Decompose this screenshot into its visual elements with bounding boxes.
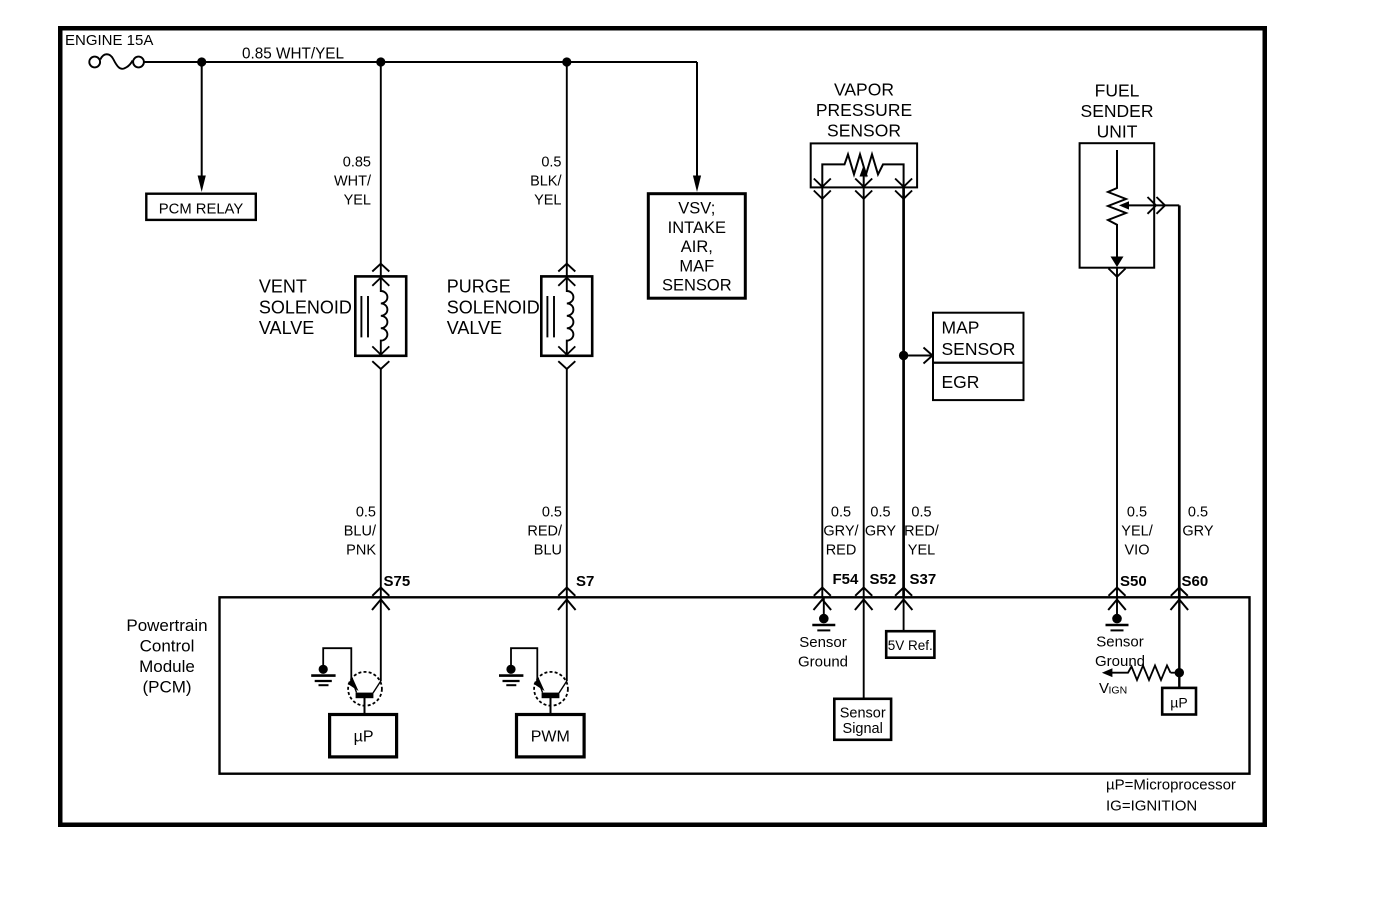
wire label 0.5 BLK/YEL [530,155,562,209]
svg-text:GRY: GRY [1182,524,1213,540]
svg-text:Control: Control [140,637,195,656]
wire: drop to PCM relay [198,62,206,192]
svg-text:F54: F54 [833,571,860,588]
wire label 0.5 RED/BLU [527,505,563,559]
svg-text:YEL/: YEL/ [1121,524,1153,540]
svg-text:SENSOR: SENSOR [942,339,1016,359]
svg-text:SOLENOID: SOLENOID [447,298,540,318]
microprocessor uP box (right) [1162,688,1196,715]
svg-text:VAPOR: VAPOR [834,80,894,100]
svg-text:SOLENOID: SOLENOID [259,298,352,318]
transistor Q2 [534,672,568,715]
connector crossing F54 at PCM edge [814,588,832,611]
wire: purge solenoid feed 0.5 BLK/YEL [566,62,568,276]
splice label S50 [1120,573,1147,590]
svg-text:YEL: YEL [908,543,935,559]
svg-text:0.5: 0.5 [1188,505,1208,521]
svg-text:µP: µP [354,729,374,746]
Sensor Signal box [834,699,891,740]
connector chevron below vent solenoid [372,361,389,369]
net label VIGN [1099,680,1127,697]
svg-text:FUEL: FUEL [1095,81,1140,101]
wire: vapor sensor pin3 to PCM S37 0.5 RED/YEL [902,187,905,597]
sensor ground symbol at F54 [812,597,835,630]
svg-text:µP: µP [1170,695,1187,711]
svg-text:VIO: VIO [1125,543,1150,559]
sensor ground label (right) [1095,634,1145,671]
svg-text:5V Ref.: 5V Ref. [888,638,933,653]
connector crossing S37 at PCM edge [895,588,913,611]
svg-text:PRESSURE: PRESSURE [816,100,912,120]
svg-text:BLU: BLU [534,543,562,559]
wire: drop to VSV intake air MAF sensor [693,62,701,192]
Powertrain Control Module PCM box [220,597,1250,773]
svg-text:Ground: Ground [1095,653,1145,670]
vent solenoid valve L1 box and coil [355,276,406,355]
svg-text:S50: S50 [1120,573,1147,590]
svg-text:INTAKE: INTAKE [668,219,726,237]
svg-text:ENGINE 15A: ENGINE 15A [65,32,153,49]
junction node at VIGN resistor [1175,668,1184,677]
svg-text:PCM RELAY: PCM RELAY [159,201,244,217]
svg-text:BLK/: BLK/ [530,174,562,190]
resistor R3 to VIGN [1102,666,1179,681]
svg-text:SENSOR: SENSOR [662,277,732,295]
wire: fuel sender wiper to PCM S60 0.5 GRY [1178,205,1181,597]
svg-text:Module: Module [139,657,195,676]
wire: top power bus 0.85 WHT/YEL [144,61,697,63]
junction node to MAP sensor tap [899,351,908,360]
fuel sender unit label [1081,81,1154,142]
splice label S60 [1182,573,1209,590]
svg-text:RED/: RED/ [527,524,563,540]
svg-text:MAP: MAP [942,318,980,338]
svg-text:VALVE: VALVE [447,318,502,338]
svg-text:PNK: PNK [346,543,376,559]
svg-text:UNIT: UNIT [1097,122,1138,142]
svg-text:Sensor: Sensor [840,706,886,722]
PWM driver box [517,715,585,757]
vapor pressure sensor label [816,80,912,141]
VSV intake air MAF sensor box [648,194,745,299]
svg-text:0.5: 0.5 [870,505,890,521]
ground at transistor Q1 [311,648,351,685]
svg-text:0.5: 0.5 [1127,505,1147,521]
sensor ground symbol at S50 [1106,597,1129,630]
svg-text:0.5: 0.5 [356,505,376,521]
connector chevron above vent solenoid [372,264,389,272]
svg-text:Ground: Ground [798,654,848,671]
svg-text:IGN: IGN [1109,685,1128,697]
svg-text:AIR,: AIR, [681,238,713,256]
note IG=IGNITION [1106,798,1197,815]
svg-text:GRY: GRY [865,524,896,540]
wire: S37 to 5V ref [903,597,905,631]
fuel sender unit box with variable resistor R2 [1080,143,1180,268]
vapor pressure sensor box with potentiometer R1 [811,143,917,187]
svg-text:S7: S7 [576,573,594,590]
connector crossing S75 at PCM edge [372,588,390,611]
PCM label [126,616,207,697]
wire label 0.85 WHT/YEL (top bus) [242,46,344,63]
transistor Q1 [348,672,382,715]
connector crossing S7 at PCM edge [558,588,576,611]
splice label S7 [576,573,594,590]
svg-text:IG=IGNITION: IG=IGNITION [1106,798,1197,815]
wire label 0.5 GRY (right) [1182,505,1213,540]
wire: vent solenoid to PCM S75 0.5 BLU/PNK [380,369,382,681]
svg-text:S52: S52 [870,571,897,588]
splice labels F54 S52 S37 [833,571,860,588]
svg-text:MAF: MAF [679,257,714,275]
svg-text:µP=Microprocessor: µP=Microprocessor [1106,777,1236,794]
svg-text:SENSOR: SENSOR [827,121,901,141]
wire label 0.5 RED/YEL [904,505,940,559]
wire label 0.5 YEL/VIO [1121,505,1153,559]
svg-text:0.5: 0.5 [541,155,561,171]
wire: S52 to sensor signal [863,597,865,699]
svg-text:VSV;: VSV; [678,200,715,218]
fuse F1 ENGINE 15A symbol [89,54,144,69]
wire: S60 into PCM to junction [1178,597,1180,688]
splice label S75 [384,573,411,590]
connector chevron below purge solenoid [558,361,575,369]
wire: vapor sensor pin2 to PCM S52 0.5 GRY [863,187,865,597]
svg-text:SENDER: SENDER [1081,101,1154,121]
svg-text:GRY/: GRY/ [823,524,859,540]
outer diagram border frame [60,28,1265,825]
svg-text:PURGE: PURGE [447,277,511,297]
connector crossings at vapor sensor bottom edge [814,179,912,199]
wire label 0.5 GRY [865,505,896,540]
wire label 0.85 WHT/YEL (vent feed) [334,155,372,209]
sensor ground label (left) [798,634,848,671]
svg-text:(PCM): (PCM) [142,678,191,697]
svg-text:WHT/: WHT/ [334,174,372,190]
svg-text:Powertrain: Powertrain [126,616,207,635]
note uP=Microprocessor [1106,777,1236,794]
vent solenoid valve label [259,277,352,339]
wire: purge solenoid to PCM S7 0.5 RED/BLU [566,369,568,681]
wire label 0.5 BLU/PNK [344,505,377,559]
PCM RELAY box [146,194,256,220]
connector crossing S50 at PCM edge [1108,588,1126,611]
svg-text:Sensor: Sensor [1096,634,1144,651]
junction node at PCM relay drop [197,57,206,66]
connector chevron above purge solenoid [558,264,575,272]
svg-text:0.85: 0.85 [343,155,371,171]
svg-text:YEL: YEL [344,193,371,209]
5V Ref box [886,631,934,658]
svg-text:VENT: VENT [259,277,307,297]
svg-text:0.85 WHT/YEL: 0.85 WHT/YEL [242,46,344,63]
wire label 0.5 GRY/RED [823,505,859,559]
svg-text:VALVE: VALVE [259,318,314,338]
junction node at purge solenoid drop [562,57,571,66]
svg-text:0.5: 0.5 [911,505,931,521]
svg-text:0.5: 0.5 [542,505,562,521]
svg-text:RED: RED [826,543,857,559]
svg-text:PWM: PWM [531,729,570,746]
connector crossing S60 at PCM edge [1171,588,1189,611]
svg-text:V: V [1099,680,1109,697]
wire: vent solenoid feed 0.85 WHT/YEL [380,62,382,276]
svg-text:BLU/: BLU/ [344,524,377,540]
wire: tap to MAP sensor EGR [904,348,933,364]
connector chevron below fuel sender [1109,269,1126,277]
ground at transistor Q2 [499,648,537,685]
svg-text:Signal: Signal [843,721,883,737]
svg-text:S75: S75 [384,573,411,590]
svg-text:EGR: EGR [942,372,980,392]
purge solenoid valve L2 box and coil [541,276,592,355]
microprocessor uP box (left) [330,715,397,757]
svg-text:Sensor: Sensor [799,634,847,651]
svg-text:S60: S60 [1182,573,1209,590]
connector crossing S52 at PCM edge [855,588,873,611]
svg-text:RED/: RED/ [904,524,940,540]
wire: vapor sensor pin1 to PCM F54 0.5 GRY/RED [821,187,823,597]
MAP sensor box [933,313,1024,363]
junction node at vent solenoid drop [376,57,385,66]
EGR box [933,363,1024,400]
svg-text:YEL: YEL [534,193,561,209]
wire: fuel sender to PCM S50 0.5 YEL/VIO [1116,268,1118,597]
purge solenoid valve label [447,277,540,339]
svg-text:S37: S37 [910,571,937,588]
svg-text:0.5: 0.5 [831,505,851,521]
fuse ENGINE 15A label [65,32,153,49]
